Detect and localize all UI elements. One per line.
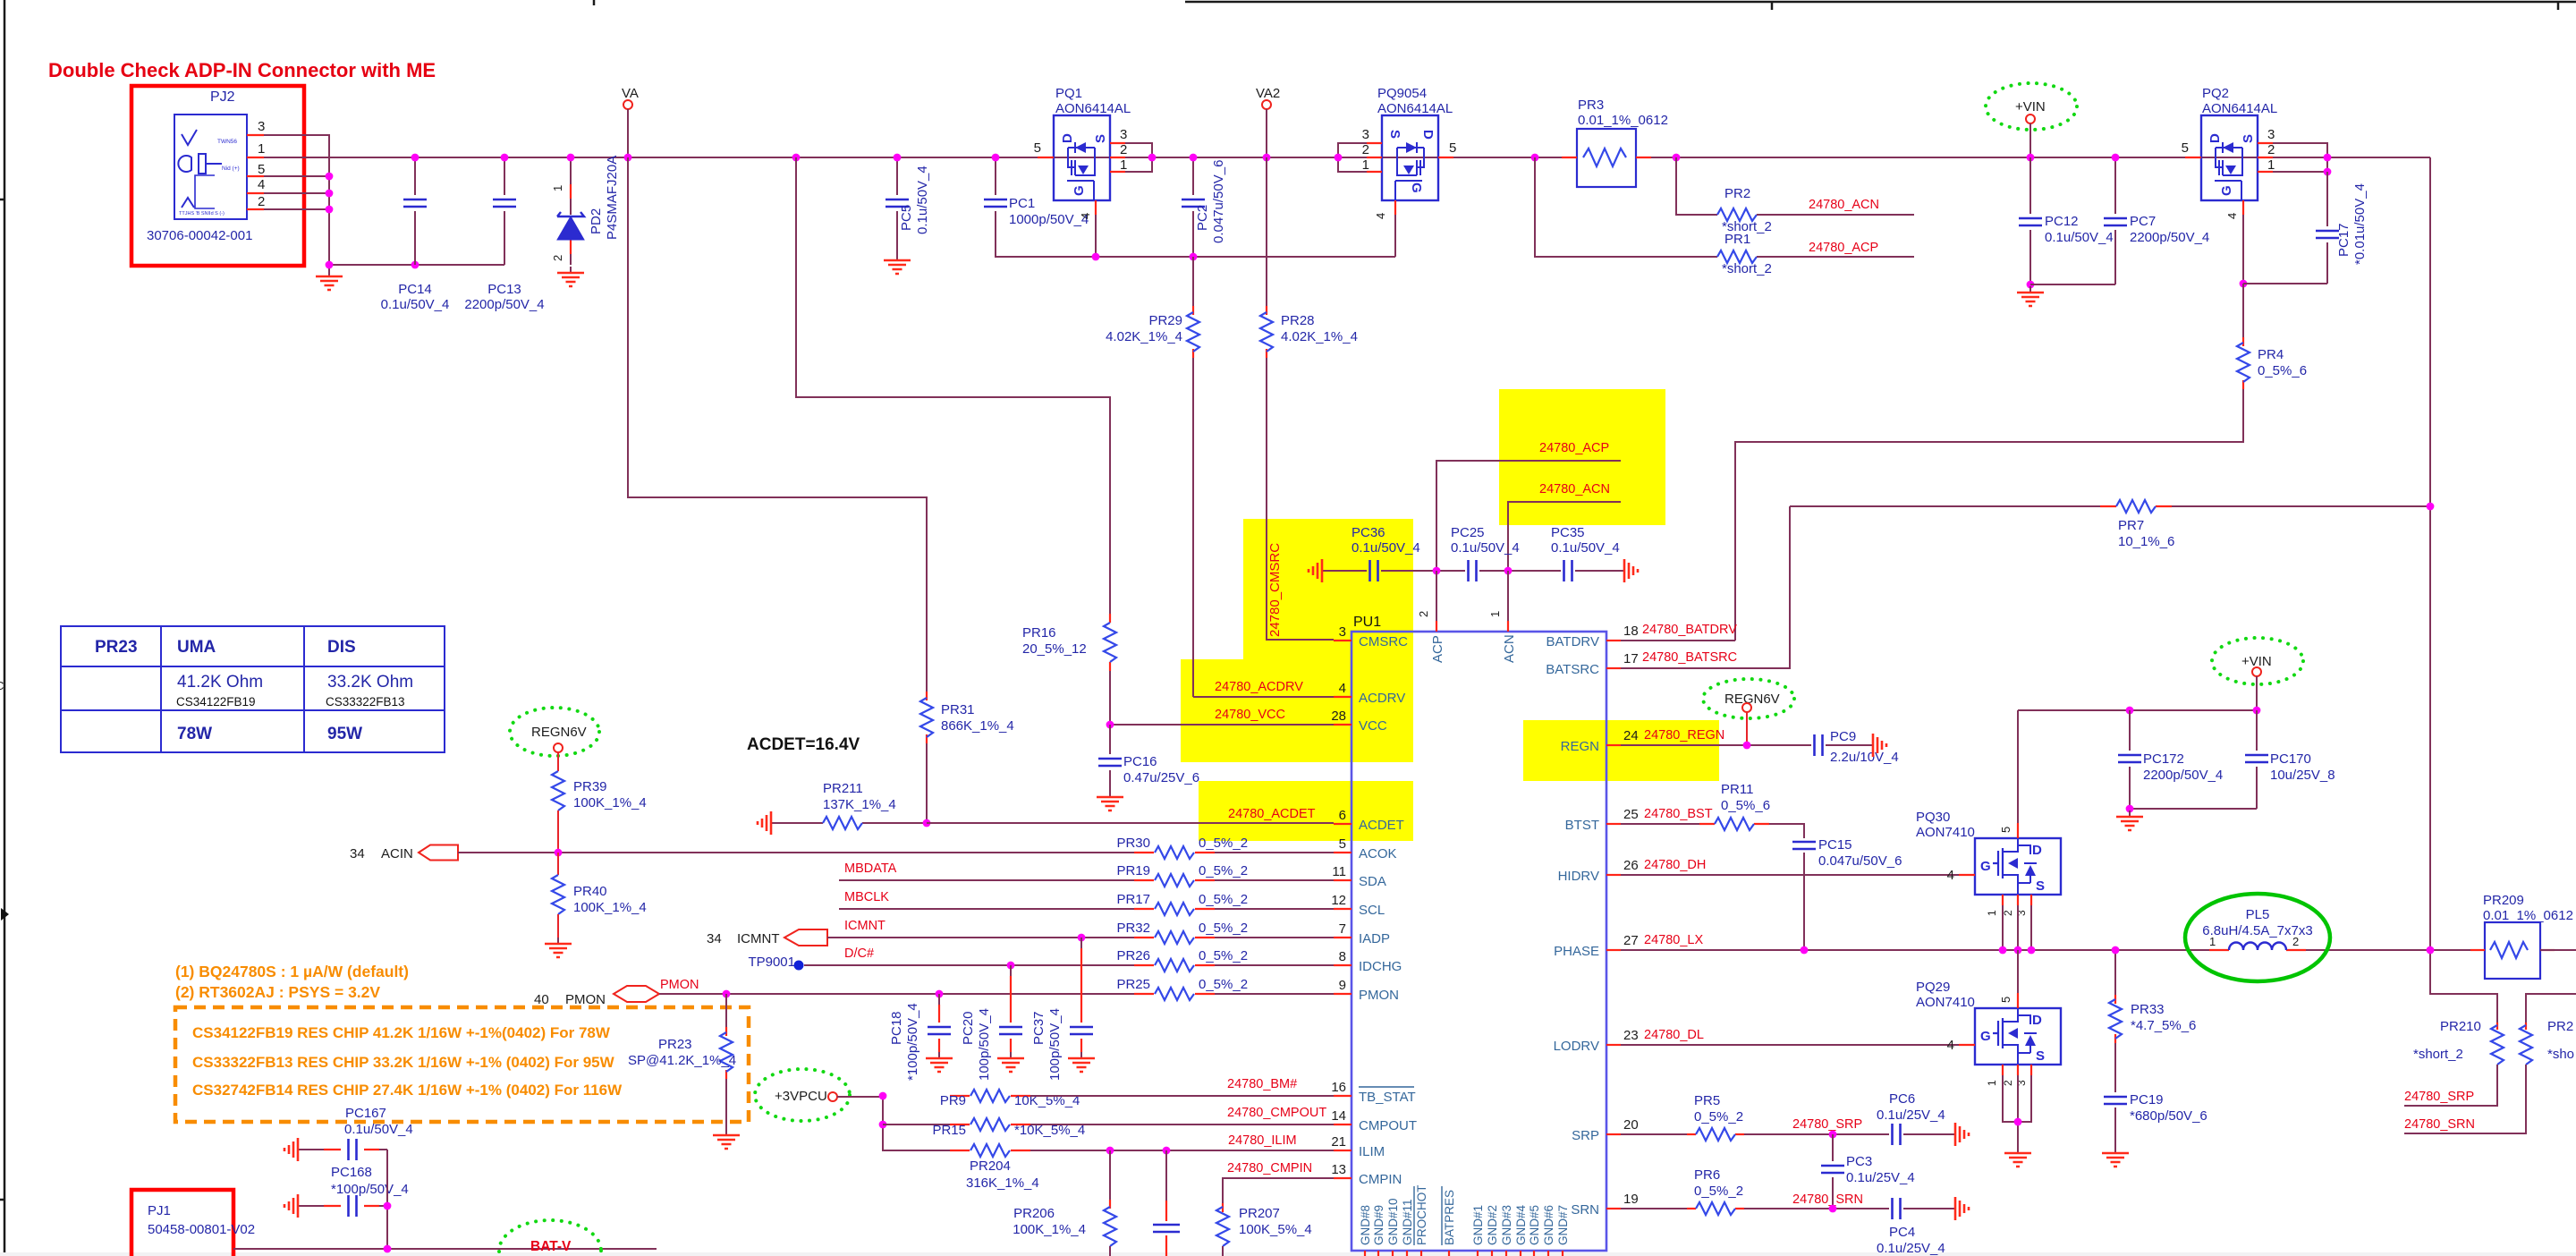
svg-text:+VIN: +VIN <box>2015 99 2046 115</box>
svg-text:BATPRES: BATPRES <box>1443 1190 1456 1245</box>
svg-text:24780_BATSRC: 24780_BATSRC <box>1642 650 1737 665</box>
svg-text:REGN: REGN <box>1561 739 1599 754</box>
svg-text:PC14: PC14 <box>398 282 432 297</box>
PU1 pin 19 SRN <box>1606 1208 1621 1209</box>
svg-text:0_5%_2: 0_5%_2 <box>1199 863 1248 878</box>
PU1 pin 2 ACP <box>1436 621 1437 632</box>
svg-text:PR29: PR29 <box>1148 313 1182 328</box>
ground PC19 <box>2114 1147 2116 1152</box>
PQ1 pin 4 gate <box>1095 200 1097 215</box>
svg-text:PR209: PR209 <box>2483 893 2524 908</box>
svg-text:SRP: SRP <box>1572 1128 1599 1143</box>
svg-text:AON6414AL: AON6414AL <box>2202 101 2277 116</box>
svg-text:GND#5: GND#5 <box>1528 1205 1541 1245</box>
PQ9054 pin 3 <box>1367 142 1382 144</box>
ground PR23 <box>725 1129 727 1134</box>
junction VA2 <box>1263 154 1271 162</box>
svg-text:GND#8: GND#8 <box>1359 1205 1372 1245</box>
PU1 pin 7 IADP <box>1334 937 1352 938</box>
svg-text:24780_ILIM: 24780_ILIM <box>1228 1133 1297 1148</box>
svg-text:5: 5 <box>1999 997 2012 1003</box>
svg-text:TP9001: TP9001 <box>748 955 795 970</box>
junction ILIM PR206 <box>1106 1147 1114 1155</box>
svg-text:AON6414AL: AON6414AL <box>1377 101 1453 116</box>
wire PQ1 source loop <box>1125 143 1152 172</box>
junction PQ2 loop 2 <box>2324 154 2332 162</box>
svg-text:GND#1: GND#1 <box>1471 1205 1485 1245</box>
ground PC4 <box>1950 1208 1954 1209</box>
resistor PR7 <box>1790 505 2430 507</box>
svg-text:S: S <box>2036 878 2045 894</box>
svg-text:24780_BATDRV: 24780_BATDRV <box>1642 623 1737 637</box>
svg-text:PC6: PC6 <box>1889 1091 1915 1107</box>
svg-text:3: 3 <box>1339 624 1346 640</box>
junction PQ29 source <box>2014 1118 2022 1126</box>
svg-text:PR4: PR4 <box>2258 347 2284 362</box>
svg-text:PQ30: PQ30 <box>1916 810 1950 825</box>
svg-text:G: G <box>1980 1029 1991 1044</box>
PU1 pin 23 LODRV <box>1606 1044 1621 1046</box>
svg-text:24780_BST: 24780_BST <box>1644 807 1713 821</box>
wire battery rail <box>2430 157 2497 1023</box>
svg-text:9: 9 <box>1339 978 1346 993</box>
svg-text:ICMNT: ICMNT <box>737 931 780 946</box>
junction PC168 <box>384 1202 392 1210</box>
svg-text:100p/50V_4: 100p/50V_4 <box>977 1008 992 1081</box>
resistor PR4 <box>1735 284 2243 641</box>
junction 3VPCU PR15 <box>879 1121 887 1129</box>
highlight ACDET yellow <box>1199 781 1413 841</box>
junction PC2 bottom <box>1190 253 1198 261</box>
resistor PR15 <box>950 1124 970 1125</box>
PU1 bottom pin GND#4 <box>1520 1251 1521 1256</box>
PQ30 pins 1 2 3 source <box>2002 895 2004 905</box>
highlight ACP ACN yellow <box>1499 389 1665 525</box>
svg-text:23: 23 <box>1623 1028 1639 1043</box>
svg-text:MBDATA: MBDATA <box>844 861 897 876</box>
svg-text:PC1: PC1 <box>1009 196 1035 211</box>
capacitor PC172 <box>2129 710 2131 809</box>
wire PQ2 battery loop <box>2273 143 2430 172</box>
PQ29 pins 1 2 3 source <box>2002 1065 2004 1075</box>
svg-text:100K_1%_4: 100K_1%_4 <box>573 795 647 810</box>
PU1 bottom pin BATPRES <box>1448 1251 1450 1256</box>
svg-text:VCC: VCC <box>1359 718 1387 734</box>
svg-text:PR23: PR23 <box>658 1037 692 1052</box>
svg-text:GND#10: GND#10 <box>1386 1198 1400 1245</box>
diode PD2 <box>570 157 572 265</box>
svg-text:GND#4: GND#4 <box>1514 1204 1528 1245</box>
svg-text:PC5: PC5 <box>899 205 914 231</box>
wire PQ9054 source loop <box>1338 143 1367 172</box>
svg-text:1000p/50V_4: 1000p/50V_4 <box>1009 212 1089 227</box>
svg-text:S: S <box>1093 134 1108 143</box>
svg-text:BATDRV: BATDRV <box>1546 634 1599 649</box>
resistor PR16 <box>1109 614 1111 623</box>
svg-text:16: 16 <box>1331 1080 1346 1095</box>
svg-text:4: 4 <box>1947 1038 1954 1053</box>
junction ACDET <box>923 819 931 827</box>
svg-text:7: 7 <box>1339 921 1346 937</box>
svg-text:PR19: PR19 <box>1116 863 1150 878</box>
PU1 bottom pin GND#7 <box>1562 1251 1563 1256</box>
svg-text:40: 40 <box>534 992 549 1007</box>
svg-text:VA2: VA2 <box>1256 86 1280 101</box>
svg-text:28: 28 <box>1331 709 1346 724</box>
svg-text:S: S <box>2036 1048 2045 1064</box>
junction ACIN divider <box>555 849 563 857</box>
svg-text:24780_ACN: 24780_ACN <box>1539 482 1610 496</box>
svg-text:PR17: PR17 <box>1116 892 1150 907</box>
svg-text:PC7: PC7 <box>2130 214 2156 229</box>
resistor PR29 <box>1192 257 1194 697</box>
svg-text:24780_ACDRV: 24780_ACDRV <box>1215 680 1303 694</box>
PQ2 pin 3 <box>2258 142 2273 144</box>
resistor PR17 <box>839 908 1134 910</box>
svg-text:PR206: PR206 <box>1013 1206 1055 1221</box>
svg-text:PC13: PC13 <box>487 282 521 297</box>
PQ1 pin 3 <box>1110 142 1125 144</box>
svg-text:5: 5 <box>1449 140 1456 156</box>
svg-text:S: S <box>1387 130 1402 139</box>
wire VA2 to PR28 <box>1266 157 1267 306</box>
svg-text:G: G <box>1072 185 1087 196</box>
wire BAT-V rail <box>233 1248 657 1250</box>
svg-text:0_5%_2: 0_5%_2 <box>1694 1184 1743 1199</box>
PU1 bottom pin PROCHOT <box>1420 1251 1422 1256</box>
junction ACP tap <box>1531 154 1539 162</box>
svg-text:PR23: PR23 <box>95 638 138 657</box>
svg-text:0_5%_6: 0_5%_6 <box>2258 363 2307 378</box>
resistor PR30 <box>1133 852 1135 853</box>
svg-text:G: G <box>2219 185 2234 196</box>
highlight ACDRV VCC yellow <box>1181 659 1413 762</box>
svg-text:CMPOUT: CMPOUT <box>1359 1118 1417 1133</box>
PU1 pin 18 BATDRV <box>1606 640 1621 641</box>
svg-text:27: 27 <box>1623 933 1639 948</box>
wire BATSRC <box>1621 506 1790 668</box>
svg-text:GND#6: GND#6 <box>1542 1205 1555 1245</box>
svg-text:CS33322FB13 RES CHIP 33.2K 1/: CS33322FB13 RES CHIP 33.2K 1/16W +-1% (0… <box>192 1054 615 1071</box>
wire VA to ACDET divider <box>628 157 927 692</box>
svg-text:100p/50V_4: 100p/50V_4 <box>1047 1008 1063 1081</box>
svg-text:2: 2 <box>2292 935 2299 948</box>
svg-text:PR2: PR2 <box>1724 186 1750 201</box>
svg-text:PMON: PMON <box>660 978 699 992</box>
ground PC36 row left <box>1323 570 1327 572</box>
PJ2 pin 2 <box>247 208 264 210</box>
svg-text:PC36: PC36 <box>1352 525 1385 540</box>
wire +3VPCU <box>837 1096 950 1150</box>
wire PR209 out <box>2540 949 2576 951</box>
wire ACDRV <box>1193 696 1334 698</box>
capacitor PC2 <box>1192 157 1194 257</box>
svg-text:PR15: PR15 <box>932 1123 966 1138</box>
PU1 pin 25 BTST <box>1606 823 1621 825</box>
svg-text:ACIN: ACIN <box>381 846 413 861</box>
svg-text:PR25: PR25 <box>1116 977 1150 992</box>
svg-text:24780_DH: 24780_DH <box>1644 858 1706 872</box>
svg-text:24780_SRN: 24780_SRN <box>2404 1117 2475 1132</box>
resistor PR25 <box>659 993 1134 995</box>
svg-text:4: 4 <box>1339 681 1346 696</box>
ground PC6 <box>1950 1133 1954 1135</box>
svg-text:13: 13 <box>1331 1162 1346 1177</box>
svg-text:ACDET: ACDET <box>1359 818 1404 833</box>
junction 3VPCU PR9 <box>879 1092 887 1100</box>
svg-text:24780_ACP: 24780_ACP <box>1539 441 1609 455</box>
svg-text:PQ29: PQ29 <box>1916 980 1950 995</box>
PQ30 pin 4 gate <box>1959 874 1975 876</box>
ground PR40 <box>557 938 559 943</box>
svg-text:0.1u/50V_4: 0.1u/50V_4 <box>1451 540 1520 556</box>
svg-text:18: 18 <box>1623 624 1639 639</box>
resistor PR28 <box>1267 306 1334 640</box>
junction PC170 top <box>2253 707 2261 715</box>
svg-text:8: 8 <box>1339 949 1346 964</box>
svg-text:0.047u/50V_6: 0.047u/50V_6 <box>1818 853 1902 869</box>
wire PJ2 ground net <box>264 135 504 270</box>
svg-text:24780_CMPIN: 24780_CMPIN <box>1227 1161 1312 1175</box>
svg-text:0_5%_2: 0_5%_2 <box>1199 948 1248 963</box>
svg-text:Double Check ADP-IN Connector: Double Check ADP-IN Connector with ME <box>48 59 436 81</box>
PU1 pin 20 SRP <box>1606 1133 1621 1135</box>
svg-text:14: 14 <box>1331 1108 1346 1124</box>
PQ1 pin 5 <box>1038 157 1054 158</box>
svg-text:2: 2 <box>2267 142 2275 157</box>
svg-text:PU1: PU1 <box>1353 615 1381 630</box>
svg-text:12: 12 <box>1331 893 1346 908</box>
PQ1 pin 1 <box>1110 171 1125 173</box>
svg-text:PR211: PR211 <box>823 781 863 796</box>
svg-text:1: 1 <box>1986 910 1998 916</box>
PQ2 pin 4 gate <box>2242 200 2244 215</box>
PQ29 pin 5 drain <box>2017 950 2019 993</box>
svg-text:PMON: PMON <box>1359 988 1399 1003</box>
svg-text:D: D <box>2207 133 2223 143</box>
inductor PL5 <box>2185 894 2330 981</box>
svg-text:0_5%_2: 0_5%_2 <box>1694 1109 1743 1124</box>
svg-text:GND#3: GND#3 <box>1500 1205 1513 1245</box>
ground PC20 <box>1010 1052 1012 1057</box>
capacitor PC18 <box>938 994 940 1005</box>
svg-text:VA: VA <box>622 86 639 101</box>
svg-text:*0.01u/50V_4: *0.01u/50V_4 <box>2352 183 2368 265</box>
PQ2 pin 1 <box>2258 171 2273 173</box>
PQ9054 pin 2 <box>1367 157 1382 158</box>
junction PC12 bottom <box>2027 281 2035 289</box>
PU1 pin 27 PHASE <box>1606 949 1621 951</box>
svg-text:D: D <box>2032 1013 2042 1028</box>
svg-text:0.1u/25V_4: 0.1u/25V_4 <box>1877 1241 1945 1256</box>
svg-text:1: 1 <box>1986 1080 1998 1086</box>
wire HIDRV <box>1621 874 1959 876</box>
svg-text:4: 4 <box>1079 213 1092 219</box>
svg-text:PC15: PC15 <box>1818 837 1852 853</box>
svg-text:95W: 95W <box>327 725 362 743</box>
svg-text:1: 1 <box>1488 611 1502 617</box>
svg-text:0_5%_2: 0_5%_2 <box>1199 836 1248 851</box>
capacitor PC16 <box>1109 725 1111 791</box>
junction ACN tap <box>1673 154 1681 162</box>
capacitor PC3 <box>1832 1134 1834 1209</box>
junction SRP PC3 <box>1829 1131 1837 1139</box>
capacitor PC17 <box>2243 172 2327 284</box>
PU1 pin 21 ILIM <box>1334 1150 1352 1151</box>
svg-text:1: 1 <box>2267 157 2275 173</box>
svg-text:SDA: SDA <box>1359 874 1386 889</box>
junction PC172 bottom <box>2126 805 2134 813</box>
PU1 bottom pin GND#5 <box>1533 1251 1535 1256</box>
wire VA adapter bus <box>264 157 2430 158</box>
svg-text:41.2K Ohm: 41.2K Ohm <box>177 673 263 692</box>
table PR23 UMA DIS <box>61 626 445 752</box>
ground PD2 <box>570 267 572 272</box>
junction PC7 top <box>2112 154 2120 162</box>
wire VCC <box>1110 724 1334 726</box>
svg-text:DIS: DIS <box>327 638 356 657</box>
svg-text:PR7: PR7 <box>2118 518 2144 533</box>
svg-text:PC12: PC12 <box>2045 214 2079 229</box>
PU1 bottom pin GND#11 <box>1406 1251 1408 1256</box>
svg-text:*short_2: *short_2 <box>2413 1047 2463 1062</box>
svg-text:PR31: PR31 <box>941 702 975 717</box>
svg-text:PC168: PC168 <box>331 1165 372 1180</box>
svg-text:HIDRV: HIDRV <box>1558 869 1599 884</box>
svg-text:PR6: PR6 <box>1694 1167 1720 1183</box>
PU1 pin 13 CMPIN <box>1334 1177 1352 1179</box>
svg-text:2200p/50V_4: 2200p/50V_4 <box>2130 230 2209 245</box>
svg-text:PC4: PC4 <box>1889 1225 1915 1240</box>
PJ2 pin 3 <box>247 134 264 136</box>
svg-text:TWN56: TWN56 <box>217 139 237 145</box>
PQ2 pin 2 <box>2258 157 2273 158</box>
capacitor PC7 <box>2030 157 2115 284</box>
ground PC18 <box>938 1052 940 1057</box>
junction PQ1 gate <box>1092 253 1100 261</box>
svg-text:10_1%_6: 10_1%_6 <box>2118 534 2174 549</box>
svg-text:PR28: PR28 <box>1281 313 1315 328</box>
resistor PR26 <box>804 964 1134 966</box>
junction PD2 top <box>567 154 575 162</box>
PU1 pin 17 BATSRC <box>1606 667 1621 669</box>
wire PHASE <box>1621 949 2485 951</box>
wire ACN pin vertical <box>1507 571 1509 621</box>
svg-text:1: 1 <box>1362 157 1369 173</box>
capacitor PC9 <box>1815 734 1823 756</box>
svg-text:4: 4 <box>1374 213 1387 219</box>
svg-text:IDCHG: IDCHG <box>1359 959 1402 974</box>
svg-text:24780_DL: 24780_DL <box>1644 1028 1704 1042</box>
capacitor PC12 <box>2029 157 2031 284</box>
junction PC5 top <box>894 154 902 162</box>
svg-text:19: 19 <box>1623 1192 1639 1207</box>
svg-text:AON7410: AON7410 <box>1916 825 1975 840</box>
svg-text:24780_LX: 24780_LX <box>1644 933 1703 947</box>
svg-text:PQ1: PQ1 <box>1055 86 1082 101</box>
wire +VIN rail <box>2018 709 2257 711</box>
svg-text:ICMNT: ICMNT <box>844 919 885 933</box>
svg-text:ACOK: ACOK <box>1359 846 1397 861</box>
wire ACIN <box>458 852 1134 853</box>
svg-text:*100p/50V_4: *100p/50V_4 <box>905 1003 920 1081</box>
PQ9054 pin 5 <box>1438 157 1453 158</box>
svg-text:CS34122FB19 RES CHIP 41.2K 1/: CS34122FB19 RES CHIP 41.2K 1/16W +-1%(04… <box>192 1024 611 1041</box>
svg-text:PHASE: PHASE <box>1554 944 1599 959</box>
svg-text:PC18: PC18 <box>889 1011 904 1045</box>
svg-text:AON7410: AON7410 <box>1916 995 1975 1010</box>
resistor PR33 <box>2114 950 2116 1092</box>
resistor PR206 <box>1109 1150 1111 1203</box>
svg-text:2: 2 <box>1362 142 1369 157</box>
svg-text:PR204: PR204 <box>970 1158 1011 1174</box>
svg-text:PR26: PR26 <box>1116 948 1150 963</box>
PU1 pin 12 SCL <box>1334 908 1352 910</box>
PQ1 pin 2 <box>1110 157 1125 158</box>
svg-text:PC2: PC2 <box>1195 205 1210 231</box>
note dashed option box <box>175 1007 749 1122</box>
svg-text:PR207: PR207 <box>1239 1206 1280 1221</box>
PJ2 pin 5 <box>247 175 264 177</box>
svg-text:866K_1%_4: 866K_1%_4 <box>941 718 1014 734</box>
capacitor PC1 <box>996 157 1395 257</box>
node +VIN top <box>1986 83 2077 130</box>
svg-text:PC170: PC170 <box>2270 751 2311 767</box>
svg-text:PR32: PR32 <box>1116 921 1150 936</box>
svg-text:3: 3 <box>1120 127 1127 142</box>
node REGN6V right <box>1703 679 1794 718</box>
svg-text:0.047u/50V_6: 0.047u/50V_6 <box>1211 160 1226 243</box>
svg-text:25: 25 <box>1623 807 1639 822</box>
svg-text:PR16: PR16 <box>1022 625 1056 641</box>
junction PC14 top <box>411 154 419 162</box>
svg-text:24780_SRN: 24780_SRN <box>1792 1192 1863 1207</box>
svg-text:50458-00801-V02: 50458-00801-V02 <box>148 1222 255 1237</box>
svg-text:0.1u/50V_4: 0.1u/50V_4 <box>344 1122 413 1137</box>
svg-text:11: 11 <box>1332 864 1346 879</box>
svg-text:2: 2 <box>1417 611 1430 617</box>
svg-text:2: 2 <box>2002 1080 2014 1086</box>
PU1 pin 26 HIDRV <box>1606 874 1621 876</box>
junction VCC PC16 <box>1106 721 1114 729</box>
wire LODRV <box>1621 1044 1959 1046</box>
svg-text:ACP: ACP <box>1430 635 1445 663</box>
svg-text:CS34122FB19: CS34122FB19 <box>176 695 256 709</box>
svg-text:5: 5 <box>1999 827 2012 833</box>
junction PC1 top <box>992 154 1000 162</box>
junction PQ30 S2 <box>2014 946 2022 955</box>
junction DC PC20 <box>1007 962 1015 970</box>
svg-text:24780_REGN: 24780_REGN <box>1644 728 1724 743</box>
svg-text:PC3: PC3 <box>1846 1154 1872 1169</box>
svg-text:3: 3 <box>258 119 265 134</box>
svg-text:*short_2: *short_2 <box>1722 261 1772 276</box>
svg-text:24780_ACN: 24780_ACN <box>1809 198 1879 212</box>
PQ9054 pin 4 gate <box>1394 200 1396 215</box>
svg-text:IADP: IADP <box>1359 931 1390 946</box>
junction REGN <box>1743 742 1751 750</box>
capacitor ILIM filter <box>1165 1150 1167 1201</box>
svg-text:0.01_1%_0612: 0.01_1%_0612 <box>1578 113 1668 128</box>
svg-text:PMON: PMON <box>565 992 606 1007</box>
svg-text:BATSRC: BATSRC <box>1546 662 1599 677</box>
svg-text:PR210: PR210 <box>2440 1019 2481 1034</box>
PU1 pin 8 IDCHG <box>1334 964 1352 966</box>
connector PJ1 highlight box <box>131 1190 233 1256</box>
wire ACP tap to PR1 <box>1535 157 1717 257</box>
PU1 bottom pin GND#1 <box>1477 1251 1479 1256</box>
svg-text:UMA: UMA <box>177 638 216 657</box>
